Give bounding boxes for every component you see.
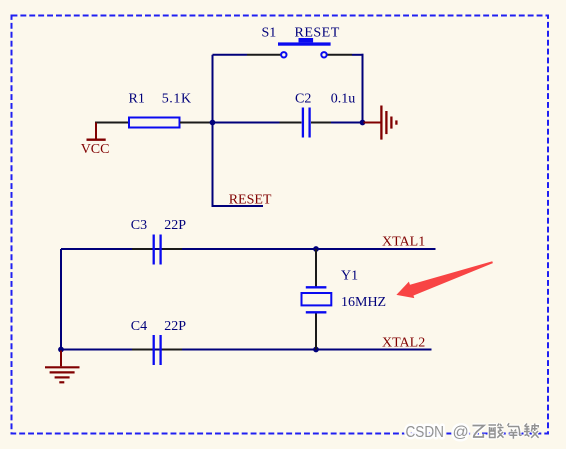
junction crystal top bbox=[313, 246, 319, 252]
wire button right navy bbox=[352, 54, 364, 56]
junction gnd crystal bbox=[58, 347, 64, 353]
wire left vertical crystal bbox=[60, 249, 62, 351]
pin C2 left bbox=[280, 122, 302, 124]
net label XTAL2 bbox=[382, 336, 425, 351]
label RESET (switch) bbox=[295, 26, 340, 41]
svg-text:22P: 22P bbox=[164, 319, 186, 334]
net label XTAL1 bbox=[382, 235, 425, 250]
ground earth bbox=[45, 351, 80, 383]
wire reset stub horizontal bbox=[212, 205, 264, 207]
watermark glyph yang bbox=[508, 423, 522, 439]
wire reset vertical left bbox=[212, 55, 214, 206]
label VCC bbox=[81, 142, 110, 157]
svg-text:RESET: RESET bbox=[295, 26, 340, 41]
label 22P (C3) bbox=[164, 218, 186, 233]
wire button right vertical bbox=[362, 54, 364, 123]
switch S1 bbox=[278, 38, 331, 58]
wire XTAL2 bbox=[61, 349, 432, 351]
svg-text:C3: C3 bbox=[131, 218, 147, 233]
svg-text:22P: 22P bbox=[164, 218, 186, 233]
pin S1 left bbox=[247, 54, 281, 56]
svg-text:C4: C4 bbox=[131, 319, 147, 334]
pin R1 right bbox=[180, 122, 210, 124]
label 16MHZ bbox=[341, 295, 386, 310]
watermark CSDN bbox=[406, 424, 469, 441]
svg-text:RESET: RESET bbox=[229, 192, 272, 207]
svg-text:VCC: VCC bbox=[81, 142, 110, 157]
ground right-rotated bbox=[364, 106, 397, 140]
resistor R1 bbox=[129, 118, 180, 128]
svg-text:R1: R1 bbox=[129, 92, 145, 107]
pin S1 right bbox=[327, 54, 352, 56]
pin C3 right bbox=[162, 248, 182, 250]
label 22P (C4) bbox=[164, 319, 186, 334]
capacitor C4 bbox=[154, 335, 161, 365]
watermark glyph yi bbox=[473, 426, 485, 438]
label C4 bbox=[131, 319, 147, 334]
svg-text:0.1u: 0.1u bbox=[331, 92, 356, 107]
crystal Y1 bbox=[302, 287, 332, 312]
svg-text:C2: C2 bbox=[295, 92, 311, 107]
pin Y1 bottom bbox=[315, 312, 317, 349]
wire button left navy bbox=[213, 54, 248, 56]
label 5.1K bbox=[162, 92, 192, 107]
annotation arrow bbox=[396, 261, 493, 298]
svg-text:XTAL2: XTAL2 bbox=[382, 336, 425, 351]
wire VCC-to-R1 bbox=[95, 122, 129, 124]
pin C2 right bbox=[311, 122, 331, 124]
label C3 bbox=[131, 218, 147, 233]
capacitor C3 bbox=[154, 235, 161, 265]
svg-text:Y1: Y1 bbox=[341, 268, 358, 283]
label Y1 bbox=[341, 268, 358, 283]
pin C4 right bbox=[162, 349, 182, 351]
wire reset node horizontal bbox=[210, 122, 280, 124]
wire XTAL1 bbox=[61, 248, 436, 250]
svg-text:CSDN: CSDN bbox=[406, 424, 445, 441]
net label RESET bbox=[229, 192, 272, 207]
svg-text:16MHZ: 16MHZ bbox=[341, 295, 386, 310]
svg-text:XTAL1: XTAL1 bbox=[382, 235, 425, 250]
junction gnd node bbox=[360, 120, 366, 126]
watermark glyph pi bbox=[524, 424, 539, 438]
svg-text:5.1K: 5.1K bbox=[162, 92, 192, 107]
pin C3 left bbox=[132, 248, 152, 250]
svg-text:@: @ bbox=[453, 424, 469, 441]
label 0.1u bbox=[331, 92, 356, 107]
watermark glyph suan bbox=[489, 424, 504, 438]
pin Y1 top bbox=[315, 249, 317, 287]
wire C2-to-gnd-node bbox=[331, 122, 364, 124]
label R1 bbox=[129, 92, 145, 107]
junction crystal bottom bbox=[313, 347, 319, 353]
pin C4 left bbox=[132, 349, 152, 351]
label S1 bbox=[262, 26, 277, 41]
label C2 bbox=[295, 92, 311, 107]
power port VCC bbox=[87, 123, 106, 140]
svg-text:S1: S1 bbox=[262, 26, 277, 41]
capacitor C2 bbox=[303, 108, 310, 138]
junction reset node bbox=[210, 120, 216, 126]
